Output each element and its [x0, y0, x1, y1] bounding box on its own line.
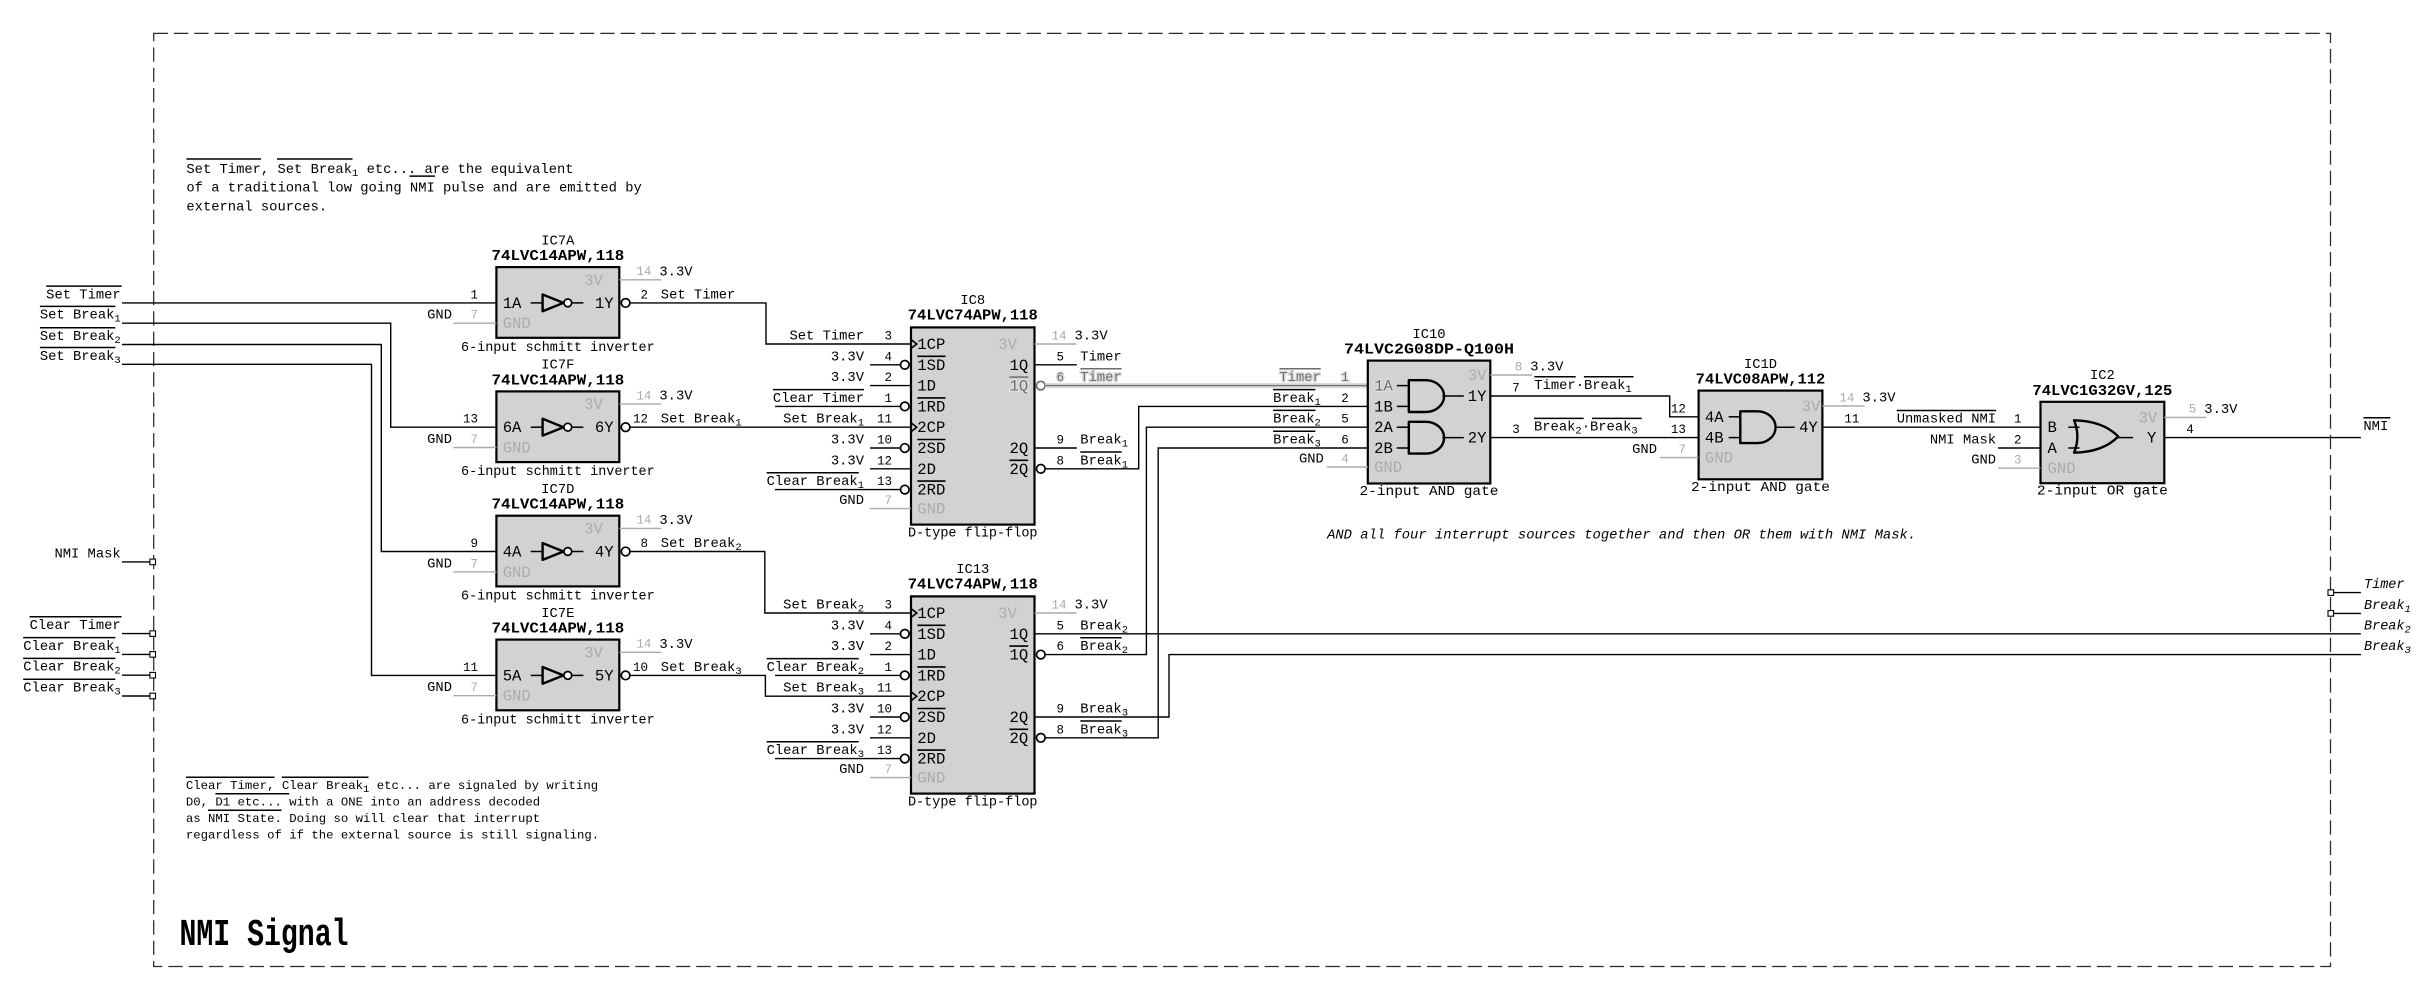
svg-text:3.3V: 3.3V — [831, 723, 865, 738]
svg-text:1D: 1D — [917, 647, 936, 665]
svg-text:GND: GND — [503, 315, 531, 333]
svg-text:GND: GND — [503, 564, 531, 582]
inverter IC7D — [496, 516, 619, 587]
svg-text:2CP: 2CP — [917, 419, 945, 437]
svg-text:NMI Mask: NMI Mask — [54, 546, 120, 562]
svg-text:6: 6 — [1057, 371, 1065, 385]
svg-text:7: 7 — [470, 557, 478, 571]
inverter IC7F — [496, 391, 619, 462]
svg-text:Break3: Break3 — [1080, 722, 1128, 740]
svg-text:2Q: 2Q — [1009, 461, 1028, 479]
svg-text:4A: 4A — [1705, 409, 1724, 427]
wire IC10 2Y to IC1D 4B — [1490, 437, 1698, 439]
wire IC7A out to IC8 pin 3 — [630, 303, 911, 344]
svg-text:2RD: 2RD — [917, 751, 945, 769]
svg-text:1Q: 1Q — [1009, 378, 1028, 396]
svg-text:Set Break3: Set Break3 — [40, 349, 121, 367]
svg-text:74LVC74APW,118: 74LVC74APW,118 — [908, 577, 1038, 594]
svg-text:1Q: 1Q — [1009, 626, 1028, 644]
svg-text:2: 2 — [2014, 434, 2022, 448]
svg-text:1CP: 1CP — [917, 605, 945, 623]
svg-text:7: 7 — [884, 763, 892, 777]
pin 12 IC13 2D 3.3V — [870, 737, 911, 739]
OR gate symbol IC2 — [2068, 426, 2079, 428]
svg-text:3V: 3V — [2139, 409, 2158, 427]
wire Set Break1 to IC7F pin 13 — [122, 323, 496, 427]
dual AND gate IC10 — [1368, 361, 1491, 484]
wire Clear Break3 stub — [122, 695, 150, 697]
wire IC7F out to IC8 pin 11 — [630, 426, 911, 428]
svg-text:GND: GND — [427, 557, 452, 572]
svg-text:4B: 4B — [1705, 430, 1724, 448]
svg-text:1Q: 1Q — [1009, 647, 1028, 665]
svg-text:9: 9 — [1057, 703, 1065, 717]
svg-text:Break2: Break2 — [1080, 639, 1128, 657]
svg-text:2-input AND gate: 2-input AND gate — [1360, 484, 1499, 500]
power pin 14 3.3V IC7E — [619, 651, 661, 653]
svg-text:2: 2 — [640, 288, 648, 302]
svg-text:3V: 3V — [584, 272, 603, 290]
svg-text:3V: 3V — [998, 336, 1017, 354]
svg-text:Set Break2: Set Break2 — [783, 598, 864, 616]
wire IC7E out to IC13 pin 11 — [630, 675, 911, 696]
svg-text:GND: GND — [427, 681, 452, 696]
svg-text:7: 7 — [1512, 382, 1520, 396]
svg-text:2B: 2B — [1374, 440, 1393, 458]
power pin 14 3.3V IC7D — [619, 527, 661, 529]
svg-text:10: 10 — [877, 703, 892, 717]
svg-text:Break1: Break1 — [2364, 599, 2411, 616]
svg-text:GND: GND — [1374, 459, 1402, 477]
svg-text:14: 14 — [636, 514, 651, 528]
svg-text:Clear Break3: Clear Break3 — [767, 743, 864, 761]
svg-text:12: 12 — [877, 723, 892, 737]
svg-text:3.3V: 3.3V — [659, 638, 693, 653]
svg-text:4Y: 4Y — [595, 544, 614, 562]
svg-text:GND: GND — [917, 501, 945, 519]
svg-text:1Y: 1Y — [595, 295, 614, 313]
svg-text:4: 4 — [2186, 423, 2194, 437]
svg-text:10: 10 — [877, 434, 892, 448]
wire Clear Break1 stub — [122, 653, 150, 655]
svg-text:3: 3 — [1512, 423, 1520, 437]
svg-text:8: 8 — [1057, 723, 1065, 737]
svg-text:GND: GND — [917, 770, 945, 788]
svg-text:Break1: Break1 — [1080, 433, 1128, 451]
unconnected end Clear Break3 — [150, 693, 156, 699]
unconnected end Clear Break1 — [150, 652, 156, 658]
svg-text:GND: GND — [1299, 453, 1324, 468]
svg-text:4: 4 — [884, 350, 892, 364]
clock wedge IC8 1CP — [911, 340, 917, 349]
svg-text:Clear Break3: Clear Break3 — [23, 681, 120, 699]
wire IC13 pin 8 to IC10 2B — [1045, 448, 1368, 738]
power pin 14 3.3V IC1D — [1822, 405, 1864, 407]
svg-text:4Y: 4Y — [1799, 419, 1818, 437]
svg-text:3.3V: 3.3V — [831, 454, 865, 469]
svg-text:Break2: Break2 — [2364, 619, 2411, 636]
svg-text:14: 14 — [636, 638, 651, 652]
unconnected end Clear Break2 — [150, 672, 156, 678]
svg-text:1RD: 1RD — [917, 667, 945, 685]
svg-text:13: 13 — [877, 475, 892, 489]
power pin 7 GND IC13 — [870, 777, 911, 779]
svg-text:Clear Timer: Clear Timer — [773, 391, 864, 407]
svg-text:1SD: 1SD — [917, 357, 945, 375]
svg-text:Break2: Break2 — [1080, 618, 1128, 636]
svg-text:Unmasked NMI: Unmasked NMI — [1897, 412, 1996, 428]
svg-text:5: 5 — [1057, 619, 1065, 633]
svg-text:5: 5 — [1057, 350, 1065, 364]
inverter IC7A — [496, 267, 619, 338]
svg-text:Clear Break2: Clear Break2 — [767, 660, 864, 678]
svg-text:1A: 1A — [1374, 378, 1393, 396]
wire IC1D 4Y to IC2 B — [1822, 426, 2040, 428]
pin 13 IC13 2RD ('Clear Break', 3) — [901, 754, 910, 763]
svg-text:10: 10 — [633, 661, 648, 675]
svg-text:Clear Break1: Clear Break1 — [767, 474, 864, 492]
pin 10 IC7E output — [621, 671, 630, 680]
svg-text:3V: 3V — [1468, 367, 1487, 385]
svg-text:4: 4 — [884, 619, 892, 633]
svg-text:3.3V: 3.3V — [1862, 392, 1896, 407]
svg-text:3.3V: 3.3V — [659, 390, 693, 405]
svg-text:3: 3 — [2014, 454, 2022, 468]
svg-text:Timer: Timer — [2364, 578, 2405, 593]
pin 4 IC13 1SD 3.3V — [901, 630, 910, 639]
svg-text:Break2·Break3: Break2·Break3 — [1534, 420, 1638, 438]
svg-text:2SD: 2SD — [917, 709, 945, 727]
pin 1 IC8 1RD ('Clear Timer', None) — [901, 402, 910, 411]
svg-text:74LVC2G08DP-Q100H: 74LVC2G08DP-Q100H — [1344, 342, 1514, 359]
power pin 5 3.3V IC2 — [2164, 416, 2206, 418]
svg-text:2D: 2D — [917, 730, 936, 748]
power pin 14 3.3V IC7F — [619, 403, 661, 405]
wire IC13 pin 6 to IC10 2A — [1045, 427, 1368, 654]
svg-text:Break3: Break3 — [2364, 640, 2411, 657]
wire IC2 Y to sheet output NMI — [2164, 437, 2361, 439]
svg-text:1B: 1B — [1374, 398, 1393, 416]
svg-text:2D: 2D — [917, 461, 936, 479]
svg-text:9: 9 — [470, 537, 478, 551]
svg-text:GND: GND — [503, 688, 531, 706]
svg-text:14: 14 — [1051, 598, 1066, 612]
svg-text:NMI: NMI — [2363, 420, 2388, 435]
svg-text:GND: GND — [1971, 454, 1996, 469]
svg-text:3.3V: 3.3V — [831, 350, 865, 365]
svg-text:3.3V: 3.3V — [1075, 599, 1109, 614]
D flip-flop IC13 — [911, 596, 1035, 793]
svg-text:2SD: 2SD — [917, 440, 945, 458]
wire IC8 pin 8 to IC10 1B — [1045, 406, 1368, 468]
svg-text:74LVC14APW,118: 74LVC14APW,118 — [492, 497, 625, 514]
svg-text:Timer·Break1: Timer·Break1 — [1534, 378, 1631, 396]
svg-text:74LVC74APW,118: 74LVC74APW,118 — [908, 308, 1038, 325]
svg-text:1: 1 — [884, 392, 892, 406]
svg-text:2: 2 — [884, 371, 892, 385]
svg-text:11: 11 — [1844, 413, 1859, 427]
pin 10 IC13 2SD 3.3V — [901, 713, 910, 722]
svg-text:GND: GND — [1632, 443, 1657, 458]
svg-text:74LVC14APW,118: 74LVC14APW,118 — [492, 621, 625, 638]
clock wedge IC13 1CP — [911, 609, 917, 618]
svg-text:Timer: Timer — [1080, 370, 1121, 386]
svg-text:13: 13 — [1671, 423, 1686, 437]
svg-text:Break3: Break3 — [1080, 702, 1128, 720]
svg-text:12: 12 — [633, 413, 648, 427]
svg-text:2Q: 2Q — [1009, 730, 1028, 748]
svg-text:Y: Y — [2147, 430, 2157, 448]
svg-text:3.3V: 3.3V — [2204, 403, 2238, 418]
svg-text:8: 8 — [640, 537, 648, 551]
svg-text:GND: GND — [2048, 460, 2076, 478]
inverter triangle IC7D — [531, 551, 543, 553]
svg-text:Break2: Break2 — [1273, 412, 1321, 430]
svg-text:Clear Break2: Clear Break2 — [23, 660, 120, 678]
svg-text:of a traditional low going NMI: of a traditional low going NMI pulse and… — [186, 181, 641, 197]
svg-text:NMI Signal: NMI Signal — [180, 914, 349, 957]
svg-text:1SD: 1SD — [917, 626, 945, 644]
svg-text:5A: 5A — [503, 667, 522, 685]
svg-text:6-input schmitt inverter: 6-input schmitt inverter — [461, 588, 655, 604]
svg-text:2-input OR gate: 2-input OR gate — [2037, 484, 2168, 500]
svg-text:D0, D1 etc... with a ONE into: D0, D1 etc... with a ONE into an address… — [186, 796, 540, 810]
svg-text:74LVC14APW,118: 74LVC14APW,118 — [492, 248, 625, 265]
svg-text:GND: GND — [839, 494, 864, 509]
svg-text:7: 7 — [470, 433, 478, 447]
svg-text:1Y: 1Y — [1468, 388, 1487, 406]
wire Set Break3 to IC7E pin 11 — [122, 364, 496, 675]
pin 12 IC8 2D 3.3V — [870, 468, 911, 470]
AND gate symbol 2 IC10 — [1397, 426, 1409, 428]
inverter IC7E — [496, 640, 619, 711]
svg-text:6-input schmitt inverter: 6-input schmitt inverter — [461, 340, 655, 356]
svg-text:GND: GND — [427, 309, 452, 324]
svg-text:Set Timer: Set Timer — [46, 287, 121, 303]
svg-text:Set Break1: Set Break1 — [40, 308, 121, 326]
svg-text:1CP: 1CP — [917, 336, 945, 354]
wire Set Timer to IC7A pin 1 — [122, 302, 496, 304]
svg-text:1D: 1D — [917, 378, 936, 396]
pin 2 IC7A output — [621, 299, 630, 308]
svg-text:3.3V: 3.3V — [659, 514, 693, 529]
svg-text:4: 4 — [1341, 453, 1349, 467]
svg-text:74LVC14APW,118: 74LVC14APW,118 — [492, 372, 625, 389]
svg-text:Set Break2: Set Break2 — [40, 329, 121, 347]
svg-text:1: 1 — [884, 661, 892, 675]
D flip-flop IC8 — [911, 327, 1035, 524]
svg-text:Break3: Break3 — [1273, 433, 1321, 451]
svg-text:GND: GND — [427, 433, 452, 448]
inverter triangle IC7E — [531, 674, 543, 676]
svg-text:3V: 3V — [1802, 398, 1821, 416]
svg-text:Clear Timer: Clear Timer — [30, 618, 121, 634]
svg-text:Set Timer: Set Timer — [789, 329, 864, 345]
svg-text:14: 14 — [1839, 391, 1854, 405]
svg-text:3.3V: 3.3V — [659, 265, 693, 280]
svg-text:5: 5 — [1341, 413, 1349, 427]
svg-text:4A: 4A — [503, 544, 522, 562]
svg-text:5: 5 — [2189, 403, 2197, 417]
svg-text:12: 12 — [1671, 402, 1686, 416]
pin 1 IC13 1RD ('Clear Break', 2) — [901, 671, 910, 680]
svg-text:7: 7 — [1678, 443, 1686, 457]
svg-text:D-type flip-flop: D-type flip-flop — [908, 794, 1038, 810]
wire IC7D out to IC13 pin 3 — [630, 552, 911, 614]
svg-text:external sources.: external sources. — [186, 199, 327, 215]
svg-text:NMI Mask: NMI Mask — [1930, 433, 1996, 449]
sheet output Break1 — [2334, 612, 2361, 614]
svg-text:2Q: 2Q — [1009, 709, 1028, 727]
svg-text:6A: 6A — [503, 419, 522, 437]
inverter triangle IC7F — [531, 426, 543, 428]
svg-text:3.3V: 3.3V — [831, 640, 865, 655]
unconnected end NMI Mask — [150, 559, 156, 565]
svg-text:74LVC08APW,112: 74LVC08APW,112 — [1696, 372, 1826, 389]
svg-text:B: B — [2048, 419, 2057, 437]
svg-text:Set Break1: Set Break1 — [783, 412, 864, 430]
svg-text:2: 2 — [1341, 392, 1349, 406]
svg-text:D-type flip-flop: D-type flip-flop — [908, 525, 1038, 541]
svg-text:Timer: Timer — [1279, 370, 1320, 386]
svg-text:3.3V: 3.3V — [831, 619, 865, 634]
wire Break2 IC13 pin 5 to sheet output — [1035, 633, 2361, 635]
svg-text:Clear Break1: Clear Break1 — [23, 639, 120, 657]
wire Clear Break2 stub — [122, 674, 150, 676]
AND gate IC1D — [1699, 391, 1823, 480]
pin 13 IC8 2RD ('Clear Break', 1) — [901, 485, 910, 494]
power pin 14 3.3V IC7A — [619, 279, 661, 281]
svg-text:1: 1 — [2014, 413, 2022, 427]
svg-text:1: 1 — [1341, 371, 1349, 385]
svg-text:8: 8 — [1515, 360, 1523, 374]
svg-text:2Y: 2Y — [1468, 430, 1487, 448]
unconnected end Clear Timer — [150, 631, 156, 637]
svg-text:5Y: 5Y — [595, 667, 614, 685]
svg-text:6Y: 6Y — [595, 419, 614, 437]
svg-text:3.3V: 3.3V — [831, 703, 865, 718]
pin 2 IC13 1D 3.3V — [870, 654, 911, 656]
svg-text:14: 14 — [1051, 329, 1066, 343]
svg-text:2-input AND gate: 2-input AND gate — [1691, 480, 1830, 496]
pin 4 IC8 1SD 3.3V — [901, 361, 910, 370]
svg-text:9: 9 — [1057, 434, 1065, 448]
svg-text:Break1: Break1 — [1080, 453, 1128, 471]
wire Break3 IC13 pin 9 to sheet output — [1035, 655, 2361, 717]
svg-text:3.3V: 3.3V — [1075, 330, 1109, 345]
svg-text:1Q: 1Q — [1009, 357, 1028, 375]
svg-text:1: 1 — [470, 288, 478, 302]
power pin 8 3.3V IC10 — [1490, 374, 1532, 376]
svg-text:GND: GND — [1705, 450, 1733, 468]
svg-text:2RD: 2RD — [917, 482, 945, 500]
svg-text:A: A — [2048, 440, 2058, 458]
svg-text:1A: 1A — [503, 295, 522, 313]
clock wedge IC8 2CP — [911, 423, 917, 432]
pin 12 IC7F output — [621, 423, 630, 432]
pin 8 IC7D output — [621, 547, 630, 556]
svg-text:14: 14 — [636, 389, 651, 403]
svg-text:7: 7 — [470, 309, 478, 323]
svg-text:Set Timer, Set Break1 etc... a: Set Timer, Set Break1 etc... are the equ… — [186, 162, 573, 180]
svg-text:3V: 3V — [998, 605, 1017, 623]
AND gate symbol 1 IC10 — [1397, 385, 1409, 387]
svg-text:Set Break3: Set Break3 — [783, 681, 864, 699]
svg-text:Break1: Break1 — [1273, 391, 1321, 409]
OR gate IC2 — [2041, 402, 2165, 483]
svg-text:7: 7 — [470, 681, 478, 695]
pin 10 IC8 2SD 3.3V — [901, 444, 910, 453]
wire Clear Timer stub — [122, 633, 150, 635]
svg-text:Set Timer: Set Timer — [661, 287, 736, 303]
svg-text:2A: 2A — [1374, 419, 1393, 437]
svg-text:14: 14 — [636, 265, 651, 279]
svg-text:Timer: Timer — [1080, 349, 1121, 365]
svg-text:3V: 3V — [584, 396, 603, 414]
svg-text:7: 7 — [884, 494, 892, 508]
svg-text:11: 11 — [877, 682, 892, 696]
power pin 7 GND IC8 — [870, 508, 911, 510]
svg-text:GND: GND — [503, 440, 531, 458]
svg-text:6: 6 — [1341, 434, 1349, 448]
svg-text:2Q: 2Q — [1009, 440, 1028, 458]
svg-text:1RD: 1RD — [917, 398, 945, 416]
svg-text:6-input schmitt inverter: 6-input schmitt inverter — [461, 712, 655, 728]
svg-text:11: 11 — [877, 413, 892, 427]
svg-text:13: 13 — [463, 413, 478, 427]
svg-text:3.3V: 3.3V — [831, 371, 865, 386]
power pin 14 3.3V IC13 — [1035, 612, 1077, 614]
svg-text:13: 13 — [877, 744, 892, 758]
svg-text:3V: 3V — [584, 520, 603, 538]
svg-text:3: 3 — [884, 599, 892, 613]
svg-text:74LVC1G32GV,125: 74LVC1G32GV,125 — [2032, 383, 2172, 400]
wire NMI Mask stub — [122, 561, 150, 563]
clock wedge IC13 2CP — [911, 692, 917, 701]
svg-text:AND all four interrupt sources: AND all four interrupt sources together … — [1326, 528, 1916, 543]
svg-text:8: 8 — [1057, 454, 1065, 468]
svg-text:3.3V: 3.3V — [831, 434, 865, 449]
svg-text:3.3V: 3.3V — [1530, 361, 1564, 376]
wire IC10 1Y to IC1D 4A — [1490, 396, 1698, 417]
svg-text:as NMI State. Doing so will cl: as NMI State. Doing so will clear that i… — [186, 812, 540, 826]
AND gate symbol IC1D — [1729, 416, 1741, 418]
svg-text:12: 12 — [877, 454, 892, 468]
wire Set Break2 to IC7D pin 9 — [122, 345, 496, 552]
power pin 14 3.3V IC8 — [1035, 343, 1077, 345]
pin 2 IC8 1D 3.3V — [870, 385, 911, 387]
svg-text:regardless of if the external: regardless of if the external source is … — [186, 829, 599, 843]
svg-text:2: 2 — [884, 640, 892, 654]
sheet output Timer — [2334, 592, 2361, 594]
svg-text:3V: 3V — [584, 644, 603, 662]
svg-text:GND: GND — [839, 763, 864, 778]
svg-text:2CP: 2CP — [917, 688, 945, 706]
svg-text:6-input schmitt inverter: 6-input schmitt inverter — [461, 464, 655, 480]
svg-text:3: 3 — [884, 330, 892, 344]
svg-text:11: 11 — [463, 661, 478, 675]
svg-text:6: 6 — [1057, 640, 1065, 654]
inverter triangle IC7A — [531, 302, 543, 304]
